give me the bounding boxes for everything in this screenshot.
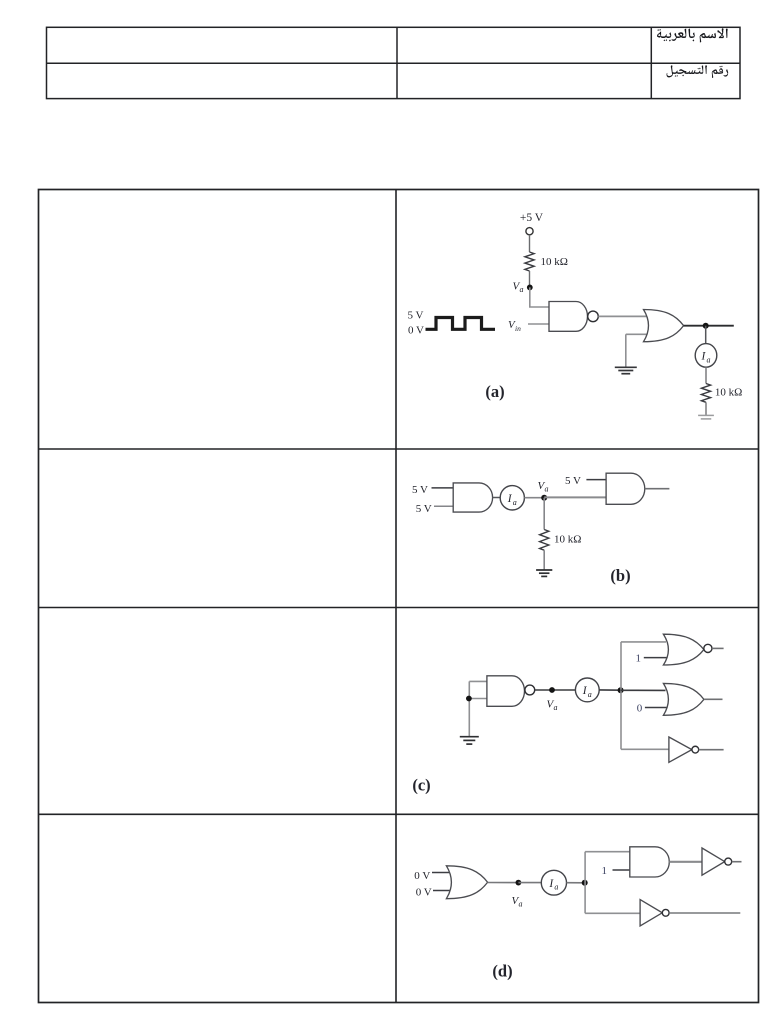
svg-text:(a): (a) bbox=[485, 382, 504, 401]
svg-text:a: a bbox=[513, 498, 517, 507]
svg-text:in: in bbox=[515, 324, 521, 333]
svg-text:+5 V: +5 V bbox=[520, 212, 544, 224]
svg-text:0 V: 0 V bbox=[408, 324, 424, 336]
svg-text:1: 1 bbox=[602, 865, 608, 877]
svg-text:a: a bbox=[519, 899, 523, 908]
svg-text:10 kΩ: 10 kΩ bbox=[554, 534, 581, 546]
svg-text:5 V: 5 V bbox=[408, 310, 424, 322]
svg-text:a: a bbox=[554, 883, 558, 892]
svg-text:a: a bbox=[554, 703, 558, 712]
svg-text:10 kΩ: 10 kΩ bbox=[715, 386, 742, 398]
svg-text:5 V: 5 V bbox=[416, 503, 432, 515]
svg-text:0: 0 bbox=[637, 703, 643, 715]
svg-text:10 kΩ: 10 kΩ bbox=[541, 256, 568, 268]
svg-text:a: a bbox=[520, 285, 524, 294]
svg-text:0 V: 0 V bbox=[416, 887, 432, 899]
svg-text:a: a bbox=[588, 690, 592, 699]
svg-text:a: a bbox=[707, 355, 711, 364]
svg-text:1: 1 bbox=[636, 652, 642, 664]
svg-text:5 V: 5 V bbox=[565, 475, 581, 487]
svg-text:5 V: 5 V bbox=[412, 484, 428, 496]
svg-text:(b): (b) bbox=[610, 566, 630, 585]
svg-text:a: a bbox=[545, 485, 549, 494]
svg-text:(c): (c) bbox=[412, 776, 430, 795]
svg-text:0 V: 0 V bbox=[414, 870, 430, 882]
svg-text:(d): (d) bbox=[492, 962, 512, 981]
